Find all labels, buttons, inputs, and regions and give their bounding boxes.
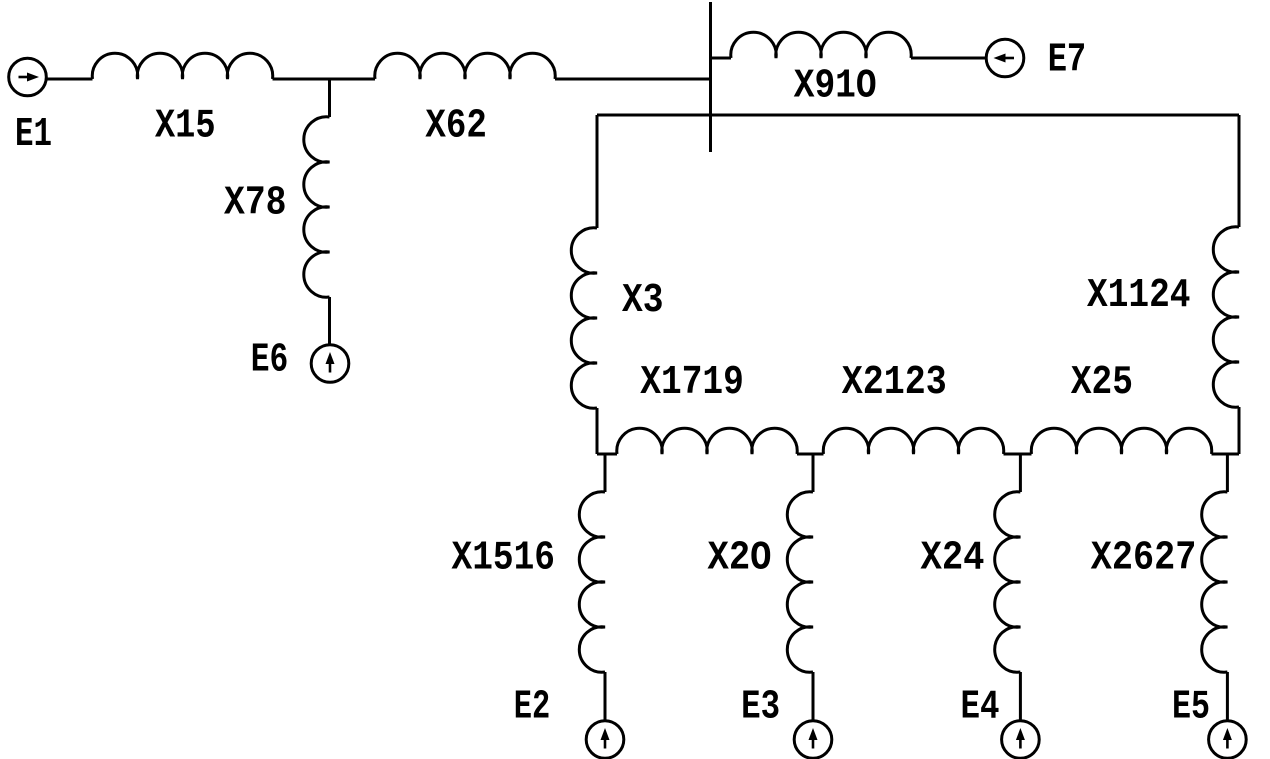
wire X15 to X62	[273, 78, 376, 81]
wire bottom bus segment C	[1004, 453, 1032, 456]
svg-text:X91O: X91O	[794, 64, 877, 110]
source E4	[1002, 721, 1040, 759]
svg-text:X2627: X2627	[1091, 536, 1197, 582]
wire bottom bus segment A	[597, 453, 617, 456]
svg-text:X78: X78	[224, 181, 287, 227]
svg-text:E1: E1	[15, 112, 52, 158]
svg-text:E7: E7	[1048, 38, 1087, 84]
wire X1124 to bottom bus	[1238, 407, 1241, 454]
source E2	[586, 721, 624, 759]
wire bus to X20	[812, 454, 815, 492]
source E3	[794, 721, 832, 759]
inductor X1124	[1213, 227, 1239, 407]
bus bar	[709, 2, 712, 152]
svg-text:X24: X24	[921, 536, 985, 582]
inductor X3	[571, 228, 597, 408]
wire X910 to E7	[911, 57, 986, 60]
svg-text:E2: E2	[514, 685, 551, 731]
wire crossline to X3	[596, 115, 599, 228]
wire X24 to E4	[1019, 672, 1022, 720]
inductor X78	[304, 117, 330, 297]
source E1	[9, 58, 47, 96]
inductor X24	[995, 492, 1021, 672]
inductor X15	[92, 53, 272, 79]
wire X2627 to E5	[1226, 672, 1229, 720]
svg-text:X62: X62	[425, 104, 487, 150]
wire bottom bus segment D	[1212, 453, 1240, 456]
svg-text:X2O: X2O	[708, 536, 772, 582]
wire node crossline	[597, 114, 1239, 117]
inductor X1719	[617, 428, 797, 454]
inductor X20	[787, 492, 813, 672]
wire crossline to X1124	[1238, 115, 1241, 227]
wire X20 to E3	[812, 672, 815, 720]
svg-text:X2123: X2123	[842, 360, 947, 406]
wire bus to X2627	[1226, 454, 1229, 492]
svg-text:X1516: X1516	[452, 536, 556, 582]
svg-text:E6: E6	[251, 338, 288, 384]
svg-text:X1124: X1124	[1087, 273, 1191, 319]
inductor X2123	[823, 428, 1003, 454]
inductor X25	[1031, 428, 1211, 454]
inductor X910	[731, 32, 911, 58]
inductor X2627	[1202, 492, 1228, 672]
svg-text:E5: E5	[1172, 685, 1210, 731]
inductor X62	[375, 53, 555, 79]
svg-text:X15: X15	[155, 104, 216, 150]
source E5	[1209, 721, 1247, 759]
svg-text:E4: E4	[961, 685, 1000, 731]
svg-text:X3: X3	[622, 278, 664, 324]
wire E1 to X15	[47, 78, 93, 81]
source E6	[311, 345, 349, 383]
svg-text:E3: E3	[741, 685, 780, 731]
wire bus to X910	[711, 57, 732, 60]
wire X1516 to E2	[604, 672, 607, 720]
svg-text:X1719: X1719	[640, 360, 744, 406]
wire junction to X78	[328, 79, 331, 117]
wire bus to X24	[1019, 454, 1022, 492]
wire X78 to E6	[328, 297, 331, 344]
wire bus to X1516	[604, 454, 607, 492]
wire X3 to bottom bus	[596, 408, 599, 454]
wire X62 to bus	[555, 78, 711, 81]
source E7	[986, 39, 1024, 77]
inductor X1516	[579, 492, 605, 672]
wire bottom bus segment B	[797, 453, 824, 456]
svg-text:X25: X25	[1071, 360, 1133, 406]
